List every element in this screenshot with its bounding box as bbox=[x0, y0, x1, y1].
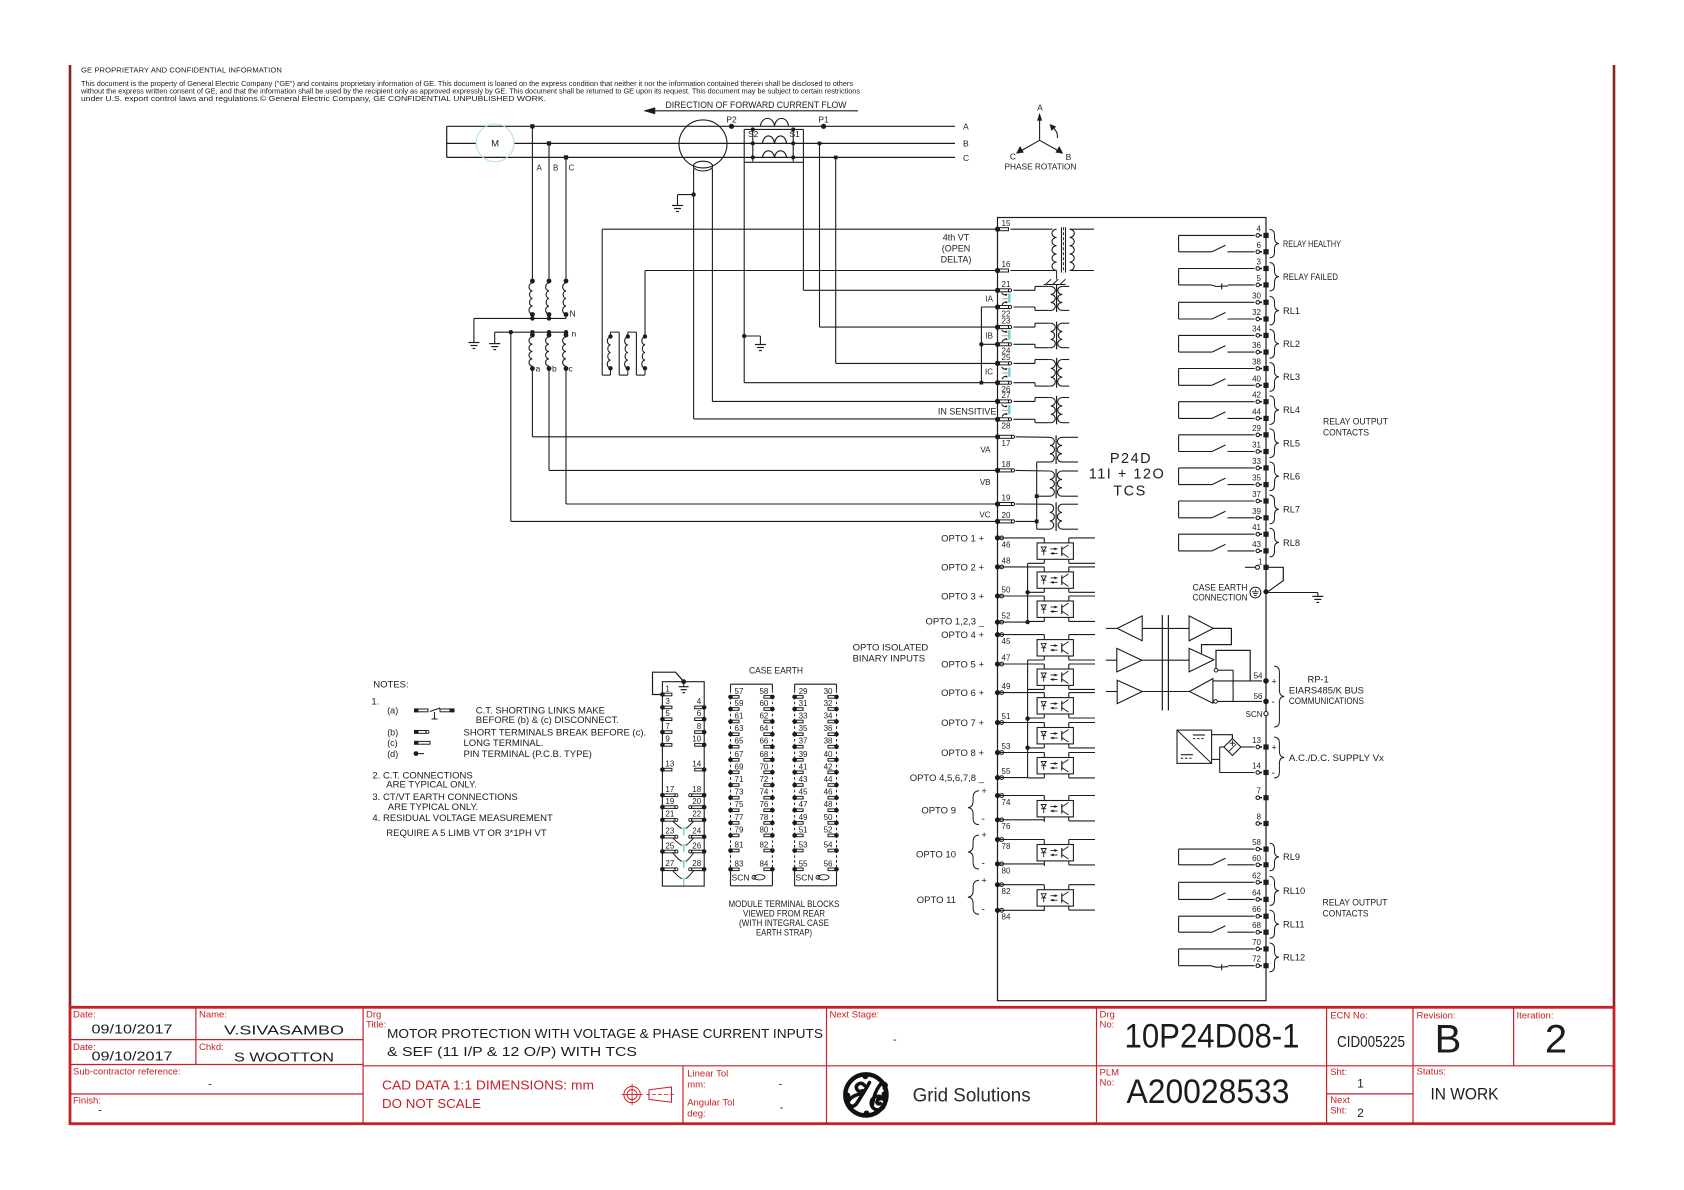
terminal 82 bbox=[995, 882, 1000, 887]
motor M1 bbox=[476, 124, 514, 162]
svg-text:EIARS485/K BUS: EIARS485/K BUS bbox=[1289, 685, 1364, 695]
TB1 terminal 23/24 bbox=[660, 834, 665, 839]
svg-text:21: 21 bbox=[665, 810, 674, 819]
terminal 16 bbox=[995, 268, 1000, 273]
svg-text:13: 13 bbox=[665, 759, 674, 768]
direction arrow bbox=[652, 110, 858, 112]
svg-text:18: 18 bbox=[692, 785, 701, 794]
TB1 terminal 17/18 bbox=[660, 793, 665, 798]
svg-text:13: 13 bbox=[1252, 736, 1261, 745]
ground G4 bbox=[489, 343, 500, 345]
terminal 7 bbox=[1256, 796, 1260, 800]
transformer T25 IC bbox=[1014, 362, 1036, 364]
ground G2 bbox=[755, 344, 766, 346]
svg-text:70: 70 bbox=[1252, 938, 1261, 947]
svg-text:43: 43 bbox=[799, 775, 808, 784]
relay contact RL9 bbox=[1179, 848, 1255, 850]
svg-text:Status:: Status: bbox=[1417, 1066, 1447, 1077]
svg-text:RELAY OUTPUT: RELAY OUTPUT bbox=[1323, 417, 1388, 427]
terminal block TB1 outline bbox=[662, 682, 704, 886]
wire CBCT right lead bbox=[711, 169, 713, 402]
svg-text:5: 5 bbox=[665, 709, 670, 718]
open delta winding assembly bbox=[601, 229, 603, 375]
svg-text:GE PROPRIETARY AND CONFIDENTIA: GE PROPRIETARY AND CONFIDENTIAL INFORMAT… bbox=[81, 66, 282, 75]
svg-text:OPTO 11: OPTO 11 bbox=[917, 895, 956, 906]
terminal 27 bbox=[995, 399, 1000, 404]
optocoupler U1 OPTO 1 bbox=[1037, 543, 1073, 559]
svg-text:41: 41 bbox=[799, 762, 808, 771]
terminal 13 bbox=[1256, 745, 1260, 749]
svg-text:RL11: RL11 bbox=[1283, 919, 1305, 929]
svg-text:RL5: RL5 bbox=[1283, 438, 1300, 448]
svg-text:OPTO 1 +: OPTO 1 + bbox=[941, 533, 984, 544]
svg-text:45: 45 bbox=[799, 788, 808, 797]
svg-text:83: 83 bbox=[735, 859, 744, 868]
svg-text:34: 34 bbox=[824, 712, 833, 721]
svg-text:OPTO 4 +: OPTO 4 + bbox=[941, 630, 984, 641]
svg-text:11I + 12O: 11I + 12O bbox=[1089, 467, 1166, 483]
svg-text:VB: VB bbox=[980, 478, 991, 487]
svg-text:8: 8 bbox=[697, 722, 702, 731]
terminal 54 bbox=[1263, 678, 1269, 684]
wire RS485 + to terminal 54 bbox=[1213, 680, 1262, 682]
svg-text:RL12: RL12 bbox=[1283, 953, 1305, 963]
wire CBCT left lead bbox=[693, 169, 695, 419]
svg-text:10: 10 bbox=[692, 735, 701, 744]
title block grid bbox=[70, 1039, 363, 1041]
terminal 17 bbox=[995, 434, 1000, 439]
svg-text:6: 6 bbox=[1257, 241, 1262, 250]
svg-text:OPTO 2 +: OPTO 2 + bbox=[941, 562, 984, 573]
TB1 terminal 25/26 bbox=[660, 849, 665, 854]
svg-text:SCN: SCN bbox=[732, 873, 750, 883]
wire bus A bbox=[447, 125, 955, 127]
drawing frame right border bbox=[1613, 65, 1616, 1008]
svg-text:52: 52 bbox=[1002, 612, 1011, 621]
relay contact RL5 bbox=[1179, 434, 1255, 436]
svg-text:OPTO 7 +: OPTO 7 + bbox=[941, 718, 984, 729]
svg-text:41: 41 bbox=[1252, 523, 1261, 532]
svg-text:A: A bbox=[1037, 103, 1043, 113]
terminal 15 bbox=[995, 227, 1000, 232]
svg-text:61: 61 bbox=[735, 712, 744, 721]
svg-text:51: 51 bbox=[1002, 712, 1011, 721]
TB1 case earth strap bbox=[653, 672, 684, 694]
svg-text:& SEF (11 I/P & 12 O/P) WITH T: & SEF (11 I/P & 12 O/P) WITH TCS bbox=[387, 1044, 637, 1059]
svg-text:3: 3 bbox=[1257, 258, 1262, 267]
svg-text:mm:: mm: bbox=[687, 1080, 705, 1091]
optocoupler U11 OPTO 11 bbox=[1037, 890, 1073, 906]
optocoupler U10 OPTO 10 bbox=[1037, 845, 1073, 861]
svg-text:21: 21 bbox=[1002, 280, 1011, 289]
svg-text:19: 19 bbox=[1002, 494, 1011, 503]
svg-text:VA: VA bbox=[980, 446, 991, 455]
wire CT common 22-24-26 bbox=[980, 307, 982, 383]
svg-text:IC: IC bbox=[985, 368, 993, 377]
terminal 48 bbox=[995, 564, 1000, 569]
wire opto 4-8 common bbox=[1027, 660, 1029, 778]
terminal block TB2 bbox=[731, 683, 773, 685]
svg-text:OPTO 10: OPTO 10 bbox=[916, 850, 956, 861]
wire RS485 - to terminal 56 bbox=[1217, 700, 1262, 702]
svg-text:4th VT: 4th VT bbox=[943, 233, 970, 243]
svg-text:74: 74 bbox=[1002, 798, 1011, 807]
svg-text:Finish:: Finish: bbox=[73, 1096, 101, 1107]
TB1 terminal 3/4 bbox=[660, 705, 665, 710]
svg-text:16: 16 bbox=[1002, 260, 1011, 269]
svg-text:Next Stage:: Next Stage: bbox=[830, 1010, 880, 1021]
node n tap bbox=[509, 330, 513, 334]
svg-text:IA: IA bbox=[985, 295, 993, 304]
svg-text:2: 2 bbox=[1545, 1017, 1567, 1061]
svg-text:MOTOR PROTECTION WITH VOLTAGE: MOTOR PROTECTION WITH VOLTAGE & PHASE CU… bbox=[387, 1026, 823, 1041]
GE logo bbox=[845, 1074, 886, 1115]
buffer A4 driver bbox=[1189, 648, 1214, 672]
svg-text:36: 36 bbox=[824, 724, 833, 733]
svg-text:66: 66 bbox=[759, 737, 768, 746]
svg-text:76: 76 bbox=[1002, 822, 1011, 831]
terminal 1 case contact bbox=[1256, 565, 1260, 569]
wire b to terminal 18 bbox=[548, 369, 550, 471]
svg-text:72: 72 bbox=[759, 775, 768, 784]
svg-text:50: 50 bbox=[824, 813, 833, 822]
svg-text:REQUIRE A 5 LIMB VT OR 3: REQUIRE A 5 LIMB VT OR 3*1PH VT bbox=[386, 828, 547, 839]
CT coil phase B bbox=[762, 136, 786, 143]
terminal 19 bbox=[995, 501, 1000, 506]
svg-text:56: 56 bbox=[1254, 692, 1263, 701]
wire tap C bbox=[565, 157, 567, 281]
svg-text:OPTO 1,2,3 _: OPTO 1,2,3 _ bbox=[926, 617, 985, 628]
svg-text:without the express written co: without the express written consent of G… bbox=[80, 89, 861, 96]
wire CT left rail to terminal 26 bbox=[744, 382, 997, 384]
CT coil phase C bbox=[762, 151, 786, 158]
node tap C bbox=[564, 155, 568, 159]
node tap B bbox=[547, 141, 551, 145]
terminal 18 bbox=[995, 468, 1000, 473]
terminal 46 bbox=[995, 535, 1000, 540]
svg-text:A: A bbox=[537, 163, 543, 172]
svg-text:80: 80 bbox=[1002, 866, 1011, 875]
CT assembly outline bbox=[744, 128, 803, 130]
terminal 20 bbox=[995, 519, 1000, 524]
svg-text:23: 23 bbox=[1002, 317, 1011, 326]
svg-text:24: 24 bbox=[692, 827, 701, 836]
svg-text:54: 54 bbox=[824, 841, 833, 850]
svg-text:28: 28 bbox=[692, 859, 701, 868]
wire CBCT left lead to terminal 28 bbox=[694, 418, 998, 420]
svg-text:42: 42 bbox=[1252, 391, 1261, 400]
power supply U20 bbox=[1177, 730, 1212, 763]
transformer T15 4th VT bbox=[1011, 228, 1053, 230]
terminal 50 bbox=[995, 593, 1000, 598]
VT T2 primary coils A B C bbox=[530, 279, 535, 284]
note symbol b short terminal bbox=[414, 730, 418, 734]
svg-text:48: 48 bbox=[824, 800, 833, 809]
svg-text:RELAY OUTPUT: RELAY OUTPUT bbox=[1323, 898, 1388, 908]
svg-text:34: 34 bbox=[1252, 324, 1261, 333]
svg-text:No:: No: bbox=[1100, 1020, 1115, 1031]
brace RP-1 bbox=[1274, 666, 1284, 727]
terminal 49 bbox=[995, 690, 1000, 695]
svg-text:18: 18 bbox=[1002, 460, 1011, 469]
terminal 26 bbox=[995, 380, 1000, 385]
svg-text:38: 38 bbox=[824, 737, 833, 746]
svg-text:CONTACTS: CONTACTS bbox=[1323, 909, 1369, 919]
relay contact RELAY FAILED bbox=[1179, 268, 1255, 270]
svg-text:PHASE ROTATION: PHASE ROTATION bbox=[1005, 161, 1077, 171]
terminal 78 bbox=[995, 837, 1000, 842]
svg-text:P24D: P24D bbox=[1110, 451, 1152, 467]
svg-text:68: 68 bbox=[1252, 921, 1261, 930]
svg-text:45: 45 bbox=[1002, 637, 1011, 646]
svg-text:53: 53 bbox=[1002, 742, 1011, 751]
svg-text:+: + bbox=[1272, 742, 1277, 752]
transformer T23 IB bbox=[1014, 326, 1036, 328]
svg-text:63: 63 bbox=[735, 724, 744, 733]
svg-text:C: C bbox=[569, 163, 575, 172]
svg-text:OPTO 3 +: OPTO 3 + bbox=[941, 591, 984, 602]
svg-text:CONNECTION: CONNECTION bbox=[1193, 592, 1248, 602]
TB1 terminal 7/8 bbox=[660, 730, 665, 735]
svg-text:EARTH STRAP): EARTH STRAP) bbox=[756, 927, 812, 938]
terminal 28 bbox=[995, 417, 1000, 422]
svg-text:9: 9 bbox=[665, 735, 670, 744]
wire V common bbox=[1036, 462, 1038, 529]
svg-text:4: 4 bbox=[697, 697, 702, 706]
svg-text:26: 26 bbox=[692, 841, 701, 850]
svg-text:RL6: RL6 bbox=[1283, 471, 1300, 481]
relay contact RL12 bbox=[1179, 948, 1255, 950]
svg-text:84: 84 bbox=[1002, 913, 1011, 922]
terminal 21 bbox=[995, 288, 1000, 293]
svg-text:84: 84 bbox=[759, 859, 768, 868]
svg-text:(b): (b) bbox=[387, 727, 398, 737]
case earth symbol bbox=[1250, 587, 1261, 598]
svg-text:43: 43 bbox=[1252, 540, 1261, 549]
svg-text:PIN TERMINAL (P.C.B. TYPE): PIN TERMINAL (P.C.B. TYPE) bbox=[464, 749, 592, 760]
svg-text:28: 28 bbox=[1002, 422, 1011, 431]
svg-text:14: 14 bbox=[1252, 762, 1261, 771]
relay contact RL3 bbox=[1179, 368, 1255, 370]
terminal 56 bbox=[1263, 699, 1269, 705]
buffer A3 bbox=[1117, 648, 1142, 672]
wire CT-C secondary to terminal 25 bbox=[834, 156, 838, 160]
svg-text:A: A bbox=[963, 122, 969, 132]
terminal block TB3 bbox=[795, 683, 837, 685]
svg-text:29: 29 bbox=[799, 687, 808, 696]
svg-text:-: - bbox=[208, 1079, 212, 1091]
wire terminal 1 to case earth bbox=[1266, 567, 1283, 591]
svg-text:70: 70 bbox=[759, 762, 768, 771]
svg-text:a: a bbox=[536, 364, 541, 374]
svg-text:V.SIVASAMBO: V.SIVASAMBO bbox=[224, 1023, 344, 1038]
svg-text:-: - bbox=[780, 1102, 784, 1114]
svg-text:2: 2 bbox=[1357, 1106, 1364, 1120]
svg-text:38: 38 bbox=[1252, 358, 1261, 367]
svg-text:ARE TYPICAL ONLY.: ARE TYPICAL ONLY. bbox=[388, 802, 478, 813]
node CBCT ground tap bbox=[691, 192, 695, 196]
svg-text:8: 8 bbox=[1257, 813, 1262, 822]
svg-text:79: 79 bbox=[735, 825, 744, 834]
svg-text:60: 60 bbox=[1252, 854, 1261, 863]
svg-text:Date:: Date: bbox=[73, 1010, 96, 1021]
svg-text:47: 47 bbox=[799, 800, 808, 809]
svg-text:This document is the property: This document is the property of General… bbox=[81, 81, 854, 88]
svg-text:P1: P1 bbox=[818, 115, 829, 125]
core-balance CT T1 secondary bbox=[693, 161, 712, 171]
svg-text:39: 39 bbox=[1252, 507, 1261, 516]
svg-text:IN WORK: IN WORK bbox=[1431, 1085, 1500, 1104]
svg-text:47: 47 bbox=[1002, 654, 1011, 663]
svg-text:59: 59 bbox=[735, 699, 744, 708]
terminal 74 bbox=[995, 793, 1000, 798]
svg-text:30: 30 bbox=[1252, 291, 1261, 300]
wire a to terminal 17 VA bbox=[531, 369, 533, 437]
svg-text:1: 1 bbox=[1357, 1077, 1364, 1091]
svg-text:SCN: SCN bbox=[1246, 710, 1263, 719]
VT T2 secondary coils a b c bbox=[530, 330, 534, 334]
relay contact RL6 bbox=[1179, 467, 1255, 469]
svg-text:42: 42 bbox=[824, 762, 833, 771]
wire to terminal 14 bbox=[1220, 772, 1255, 774]
svg-text:(d): (d) bbox=[387, 749, 398, 759]
TB1 terminal 1 bbox=[660, 692, 665, 697]
svg-text:29: 29 bbox=[1252, 424, 1261, 433]
wire bus left tie bbox=[446, 126, 448, 157]
relay contact RELAY HEALTHY bbox=[1179, 234, 1255, 236]
svg-text:Name:: Name: bbox=[199, 1010, 227, 1021]
svg-text:RP-1: RP-1 bbox=[1308, 675, 1329, 685]
svg-text:65: 65 bbox=[735, 737, 744, 746]
svg-text:S WOOTTON: S WOOTTON bbox=[234, 1050, 334, 1065]
terminal 84 bbox=[995, 908, 1000, 913]
svg-text:69: 69 bbox=[735, 762, 744, 771]
optocoupler U9 OPTO 9 bbox=[1037, 801, 1073, 817]
svg-text:33: 33 bbox=[1252, 457, 1261, 466]
terminal 23 bbox=[995, 325, 1000, 330]
svg-text:71: 71 bbox=[735, 775, 744, 784]
svg-text:7: 7 bbox=[665, 722, 670, 731]
svg-text:RL7: RL7 bbox=[1283, 505, 1300, 515]
svg-text:4. RESIDUAL VOLTAGE MEASURE: 4. RESIDUAL VOLTAGE MEASUREMENT bbox=[372, 813, 553, 824]
svg-text:44: 44 bbox=[824, 775, 833, 784]
svg-text:IB: IB bbox=[985, 332, 993, 341]
transformer T19 VC bbox=[1016, 503, 1050, 505]
note symbol a shorting link bbox=[414, 708, 418, 712]
svg-text:DIRECTION OF FORWARD CURREN: DIRECTION OF FORWARD CURRENT FLOW bbox=[666, 100, 847, 111]
case earth node bbox=[1263, 589, 1268, 594]
relay P24D outline bbox=[998, 218, 1267, 1001]
svg-text:No:: No: bbox=[1100, 1078, 1115, 1089]
svg-text:36: 36 bbox=[1252, 341, 1261, 350]
svg-text:31: 31 bbox=[1252, 441, 1261, 450]
svg-text:68: 68 bbox=[759, 750, 768, 759]
svg-text:RELAY FAILED: RELAY FAILED bbox=[1283, 272, 1338, 282]
svg-text:7: 7 bbox=[1257, 787, 1262, 796]
svg-text:55: 55 bbox=[799, 859, 808, 868]
bridge rectifier D1 bbox=[1224, 739, 1241, 756]
svg-text:66: 66 bbox=[1252, 905, 1261, 914]
svg-text:RL4: RL4 bbox=[1283, 405, 1300, 415]
svg-text:BINARY INPUTS: BINARY INPUTS bbox=[853, 654, 926, 665]
svg-text:40: 40 bbox=[1252, 374, 1261, 383]
svg-text:72: 72 bbox=[1252, 955, 1261, 964]
svg-text:53: 53 bbox=[799, 841, 808, 850]
svg-text:17: 17 bbox=[665, 785, 674, 794]
ground G1 bbox=[672, 205, 683, 207]
svg-text:64: 64 bbox=[759, 724, 768, 733]
svg-text:35: 35 bbox=[1252, 474, 1261, 483]
drawing frame left border bbox=[69, 65, 72, 1008]
wire CT-B secondary to terminal 23 bbox=[818, 142, 822, 146]
svg-text:OPTO ISOLATED: OPTO ISOLATED bbox=[853, 643, 929, 654]
svg-text:Linear Tol: Linear Tol bbox=[687, 1069, 728, 1080]
svg-text:VC: VC bbox=[979, 511, 990, 520]
wire ground stub bbox=[678, 194, 694, 196]
svg-text:49: 49 bbox=[799, 813, 808, 822]
svg-text:(OPEN: (OPEN bbox=[942, 244, 971, 254]
svg-text:48: 48 bbox=[1002, 557, 1011, 566]
svg-text:OPTO 5 +: OPTO 5 + bbox=[941, 659, 984, 670]
wire case earth to ground bbox=[1266, 592, 1318, 594]
brace AC DC supply bbox=[1274, 737, 1284, 778]
wire tap A bbox=[531, 126, 533, 281]
wire bus B bbox=[447, 142, 477, 144]
svg-text:23: 23 bbox=[665, 827, 674, 836]
svg-text:TCS: TCS bbox=[1113, 484, 1147, 500]
TB1 terminal 19/20 bbox=[660, 805, 665, 810]
svg-text:80: 80 bbox=[759, 825, 768, 834]
svg-text:B: B bbox=[963, 139, 969, 149]
svg-text:82: 82 bbox=[1002, 887, 1011, 896]
TB1 terminal 5/6 bbox=[660, 717, 665, 722]
svg-text:39: 39 bbox=[799, 750, 808, 759]
svg-text:09/10/2017: 09/10/2017 bbox=[92, 1049, 173, 1064]
TB1 earth terminal bbox=[681, 679, 686, 684]
svg-text:(a): (a) bbox=[387, 706, 398, 716]
svg-text:78: 78 bbox=[1002, 842, 1011, 851]
svg-text:58: 58 bbox=[1252, 838, 1261, 847]
svg-text:-: - bbox=[893, 1034, 897, 1046]
svg-text:5: 5 bbox=[1257, 274, 1262, 283]
title block outline bbox=[70, 1007, 1614, 1123]
svg-text:-: - bbox=[1272, 768, 1275, 779]
svg-text:30: 30 bbox=[824, 687, 833, 696]
relay contact RL11 bbox=[1179, 915, 1255, 917]
svg-text:57: 57 bbox=[735, 687, 744, 696]
relay contact RL1 bbox=[1179, 301, 1255, 303]
svg-text:IN SENSITIVE: IN SENSITIVE bbox=[938, 407, 997, 417]
wire CBCT right lead to terminal 27 bbox=[712, 400, 997, 402]
svg-text:55: 55 bbox=[1002, 767, 1011, 776]
wire tap B bbox=[548, 143, 550, 281]
svg-text:40: 40 bbox=[824, 750, 833, 759]
svg-text:B: B bbox=[1435, 1017, 1462, 1061]
buffer A1 receive bbox=[1117, 616, 1142, 641]
svg-text:-: - bbox=[982, 814, 985, 825]
svg-text:(c): (c) bbox=[387, 738, 398, 748]
ground G5 bbox=[1312, 595, 1323, 597]
TB1 terminal 13/14 bbox=[660, 767, 665, 772]
svg-text:CONTACTS: CONTACTS bbox=[1323, 428, 1369, 438]
svg-text:BEFORE (b) & (c) DISCONNECT.: BEFORE (b) & (c) DISCONNECT. bbox=[476, 715, 619, 726]
wire n rail bbox=[495, 331, 566, 333]
svg-text:S2: S2 bbox=[748, 129, 759, 139]
svg-text:+: + bbox=[982, 830, 987, 840]
svg-text:75: 75 bbox=[735, 800, 744, 809]
optocoupler U8 OPTO 8 bbox=[1037, 758, 1073, 774]
svg-text:P2: P2 bbox=[726, 115, 737, 125]
